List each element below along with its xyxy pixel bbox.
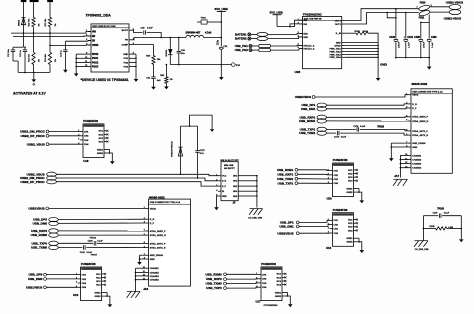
svg-text:PUSB3FR6: PUSB3FR6 bbox=[83, 119, 98, 123]
node USB2_VBUS bus bbox=[27, 172, 57, 176]
svg-text:JA6: JA6 bbox=[143, 287, 148, 291]
svg-text:CPY0USB7626: CPY0USB7626 bbox=[264, 305, 279, 307]
svg-text:C184: C184 bbox=[407, 36, 413, 39]
svg-text:1%: 1% bbox=[170, 79, 173, 81]
svg-text:D_N: D_N bbox=[222, 181, 227, 183]
svg-text:USB_RXM1: USB_RXM1 bbox=[277, 168, 294, 172]
svg-text:R186: R186 bbox=[355, 31, 361, 33]
svg-text:USB_DM1: USB_DM1 bbox=[279, 225, 294, 229]
svg-text:NC4: NC4 bbox=[277, 283, 282, 286]
ESD array U18 title bbox=[83, 119, 98, 123]
wire bbox=[299, 220, 329, 222]
svg-text:VBUS: VBUS bbox=[412, 95, 419, 97]
svg-text:NC2: NC2 bbox=[99, 134, 104, 136]
wire bbox=[405, 13, 407, 39]
svg-text:1: 1 bbox=[216, 174, 217, 176]
svg-text:NC3: NC3 bbox=[348, 177, 353, 179]
wire GND_DRAIN tie JA6 bbox=[139, 255, 146, 262]
wire VIN2 bus bbox=[13, 35, 91, 38]
node USB_DP1 bbox=[301, 103, 326, 107]
svg-text:NC4: NC4 bbox=[348, 229, 353, 232]
svg-text:STDA_SSTX_P: STDA_SSTX_P bbox=[412, 130, 428, 133]
node USB_PG2 bbox=[235, 48, 252, 52]
svg-text:BATEN2: BATEN2 bbox=[235, 37, 247, 41]
wire bbox=[420, 22, 422, 38]
svg-text:D_N: D_N bbox=[412, 104, 417, 106]
wire bbox=[169, 56, 171, 65]
svg-text:USB1VBUS: USB1VBUS bbox=[26, 285, 42, 289]
svg-text:U18: U18 bbox=[83, 159, 89, 163]
svg-text:0.1uF: 0.1uF bbox=[341, 137, 347, 139]
svg-text:STDA_SSRX_P: STDA_SSRX_P bbox=[412, 116, 428, 119]
wire bbox=[327, 107, 409, 110]
capacitor C181 bbox=[80, 245, 93, 254]
svg-text:C180: C180 bbox=[88, 241, 94, 243]
wire bbox=[181, 125, 198, 150]
svg-text:AB RECPT: AB RECPT bbox=[224, 167, 235, 170]
svg-text:NC2: NC2 bbox=[277, 277, 282, 279]
svg-text:CH1: CH1 bbox=[82, 274, 87, 276]
svg-text:46365-0002: 46365-0002 bbox=[149, 195, 165, 199]
capacitor C180 bbox=[88, 241, 104, 246]
svg-text:PWR_VIA4: PWR_VIA4 bbox=[330, 56, 342, 59]
svg-text:0.1uF: 0.1uF bbox=[147, 28, 153, 30]
node USB2_DM_PROC bbox=[20, 130, 49, 134]
svg-text:GND_DRAIN: GND_DRAIN bbox=[412, 142, 425, 145]
svg-text:GND: GND bbox=[380, 63, 388, 67]
wire bbox=[49, 65, 51, 73]
svg-text:1: 1 bbox=[256, 273, 257, 275]
wire bbox=[428, 42, 430, 58]
note CPY0USB7626 bbox=[264, 305, 279, 307]
capacitor C30 bbox=[177, 38, 186, 56]
svg-text:USB CONNECTOR TYPE A 1A: USB CONNECTOR TYPE A 1A bbox=[150, 201, 181, 204]
wire bbox=[58, 218, 145, 220]
svg-text:PUSB3FR6: PUSB3FR6 bbox=[333, 158, 348, 162]
ground bbox=[63, 70, 68, 73]
note CH_GND_USB bbox=[248, 217, 262, 219]
wire bbox=[327, 132, 337, 134]
svg-text:NC2: NC2 bbox=[348, 223, 353, 225]
svg-text:CH4: CH4 bbox=[262, 286, 267, 289]
wire bbox=[190, 115, 213, 129]
svg-text:1.0M: 1.0M bbox=[448, 227, 453, 229]
svg-text:GND_DRAIN: GND_DRAIN bbox=[150, 254, 163, 257]
svg-text:R188: R188 bbox=[430, 226, 436, 228]
wire bbox=[153, 64, 155, 76]
svg-text:TP10: TP10 bbox=[236, 65, 241, 67]
svg-text:4.7uH: 4.7uH bbox=[205, 32, 212, 35]
ESD array U17 body bbox=[256, 267, 287, 301]
svg-text:ACTIVATES AT 3.1V: ACTIVATES AT 3.1V bbox=[13, 92, 46, 96]
wire bbox=[270, 44, 302, 47]
svg-text:1: 1 bbox=[328, 219, 329, 221]
node 3V3_USB power flag bbox=[215, 7, 229, 37]
svg-text:NC2: NC2 bbox=[96, 277, 101, 279]
svg-text:CH1: CH1 bbox=[334, 220, 339, 222]
svg-text:USB1VBUS: USB1VBUS bbox=[28, 206, 44, 210]
svg-text:CH2: CH2 bbox=[84, 136, 89, 138]
wire bbox=[147, 33, 163, 39]
power switch U26 title bbox=[303, 12, 323, 16]
svg-text:GND2: GND2 bbox=[346, 192, 353, 194]
diode D1 bbox=[18, 17, 25, 26]
wire bbox=[442, 215, 461, 217]
wire bbox=[221, 50, 223, 66]
svg-text:STDA_SSRX_P: STDA_SSRX_P bbox=[150, 230, 166, 233]
wire bbox=[423, 215, 438, 217]
wire bbox=[58, 234, 145, 236]
wire bbox=[227, 273, 259, 275]
node BATEN2 bbox=[235, 37, 251, 41]
wire bbox=[56, 182, 218, 186]
svg-text:PH: PH bbox=[125, 40, 128, 42]
wire bbox=[58, 247, 82, 249]
svg-text:PGD3: PGD3 bbox=[92, 66, 99, 68]
svg-text:CH3: CH3 bbox=[82, 283, 87, 285]
resistor R10 bbox=[29, 17, 41, 26]
node 3V3USB terminal bbox=[231, 63, 240, 67]
resistor R32 feedback bbox=[160, 64, 173, 84]
node TP105 bbox=[437, 209, 444, 211]
wire bbox=[298, 178, 330, 180]
svg-text:1%: 1% bbox=[39, 23, 41, 26]
svg-text:BOOT: BOOT bbox=[122, 30, 129, 32]
svg-text:20.0k: 20.0k bbox=[363, 31, 369, 33]
svg-text:C12 1u: C12 1u bbox=[20, 49, 22, 57]
svg-text:1%: 1% bbox=[55, 59, 57, 62]
wire cap ground bus bbox=[395, 57, 430, 67]
ESD array U19 body bbox=[76, 267, 107, 301]
svg-text:PWR_VIA3: PWR_VIA3 bbox=[330, 53, 342, 56]
wire bbox=[290, 24, 303, 27]
svg-text:3: 3 bbox=[256, 282, 257, 284]
node TP108 bbox=[377, 127, 384, 129]
ESD array U16 title bbox=[333, 208, 348, 212]
svg-text:TP16: TP16 bbox=[201, 18, 207, 20]
svg-text:R13 49k: R13 49k bbox=[44, 53, 47, 62]
wire bbox=[178, 53, 180, 65]
svg-text:PG2: PG2 bbox=[124, 62, 129, 64]
node 3V3_USB power flag bbox=[270, 10, 284, 26]
svg-text:0.1uF: 0.1uF bbox=[444, 213, 450, 215]
svg-text:FAULT1_A: FAULT1_A bbox=[304, 44, 315, 47]
svg-text:NC1: NC1 bbox=[277, 274, 282, 276]
test point TP16 bbox=[197, 18, 222, 25]
node USB_DP1 lower bbox=[280, 220, 299, 224]
ESD array U20 body bbox=[328, 163, 359, 197]
svg-text:USB CONNECTOR TYPE A 1A: USB CONNECTOR TYPE A 1A bbox=[412, 91, 443, 94]
svg-text:USB2_DP_PROC: USB2_DP_PROC bbox=[20, 180, 45, 184]
svg-text:USB2VBUS: USB2VBUS bbox=[295, 95, 311, 99]
wire COMP bbox=[132, 45, 154, 56]
svg-text:100uF: 100uF bbox=[423, 41, 425, 48]
svg-text:FB10: FB10 bbox=[420, 3, 426, 5]
wire bbox=[204, 37, 223, 39]
svg-text:VBUS: VBUS bbox=[150, 208, 157, 210]
svg-text:D_N: D_N bbox=[150, 219, 155, 221]
capacitor C14 bbox=[60, 49, 68, 57]
svg-text:CH1: CH1 bbox=[262, 274, 267, 276]
svg-text:PESD5V0S1UB: PESD5V0S1UB bbox=[172, 141, 174, 157]
svg-text:CH3: CH3 bbox=[262, 283, 267, 285]
connector J5 title bbox=[220, 160, 239, 162]
wire bbox=[49, 2, 51, 17]
wire bbox=[405, 42, 407, 58]
capacitor C31 bbox=[146, 77, 161, 82]
wire bbox=[180, 157, 182, 175]
svg-text:GND1: GND1 bbox=[275, 292, 282, 294]
svg-text:1: 1 bbox=[404, 37, 405, 39]
resistor R11 bbox=[44, 17, 57, 26]
node USB_TXP0 bbox=[31, 241, 58, 245]
svg-text:MMSZ: MMSZ bbox=[18, 19, 20, 26]
wire U17 ground hook bbox=[287, 292, 291, 304]
svg-text:2: 2 bbox=[216, 180, 217, 182]
wire bbox=[217, 196, 219, 207]
svg-text:C14 1u: C14 1u bbox=[60, 49, 63, 57]
ESD array U19 refdes bbox=[73, 293, 79, 297]
svg-text:NC2: NC2 bbox=[348, 173, 353, 175]
node USB2VBUS lower bbox=[277, 231, 299, 235]
ferrite bead FB10 bbox=[417, 3, 432, 12]
wire bbox=[220, 65, 222, 78]
ferrite bead FB11 bbox=[418, 9, 430, 19]
wire GND bus U26 bbox=[345, 43, 379, 79]
op-amp U14 TPS54331 title bbox=[86, 14, 112, 18]
node USB2_DP_PROC bbox=[21, 134, 49, 138]
capacitor C178 bbox=[353, 126, 366, 131]
wire bbox=[64, 52, 66, 70]
chassis ground bbox=[127, 292, 140, 298]
svg-text:USB2VBUS: USB2VBUS bbox=[277, 231, 293, 235]
capacitor C184 bbox=[404, 36, 414, 48]
node USB_RXM0 bbox=[31, 233, 59, 237]
svg-text:D_P: D_P bbox=[150, 223, 155, 225]
svg-text:1%: 1% bbox=[39, 59, 41, 62]
wire bbox=[298, 182, 330, 184]
svg-text:0.1uF: 0.1uF bbox=[360, 126, 366, 128]
ground bbox=[376, 78, 381, 81]
svg-text:46365-0002: 46365-0002 bbox=[411, 82, 427, 86]
svg-text:R11 24k: R11 24k bbox=[44, 18, 47, 27]
node USB_DM0 bbox=[33, 221, 59, 225]
svg-text:C178: C178 bbox=[353, 126, 359, 128]
node TP107 bbox=[91, 254, 98, 256]
wire bbox=[327, 128, 356, 130]
svg-text:3: 3 bbox=[216, 185, 217, 187]
ground bbox=[137, 262, 142, 265]
svg-text:3: 3 bbox=[328, 178, 329, 180]
svg-text:PWR_VIA1: PWR_VIA1 bbox=[330, 47, 342, 50]
ground bbox=[427, 67, 432, 70]
wire bbox=[56, 174, 218, 176]
wire stub bbox=[387, 13, 397, 19]
node USB_TXP1 bbox=[300, 127, 327, 131]
svg-text:GND1: GND1 bbox=[346, 238, 353, 240]
ESD array U20 title bbox=[333, 158, 348, 162]
resistor R186 ILIM bbox=[345, 31, 369, 35]
wire bbox=[24, 46, 26, 49]
svg-text:CH1: CH1 bbox=[84, 131, 89, 133]
svg-text:PUSB3FR6: PUSB3FR6 bbox=[261, 262, 276, 266]
node USB_DM1 bbox=[301, 107, 327, 111]
wire bbox=[327, 120, 409, 122]
wire GND_DRAIN tie bbox=[391, 143, 409, 158]
svg-text:CH4: CH4 bbox=[84, 143, 89, 146]
svg-text:10u: 10u bbox=[181, 53, 185, 55]
ground bbox=[459, 239, 464, 242]
svg-text:3: 3 bbox=[328, 227, 329, 229]
svg-text:OUT1: OUT1 bbox=[335, 20, 342, 22]
svg-text:SS: SS bbox=[92, 40, 96, 42]
wire output rail bbox=[170, 64, 231, 66]
svg-text:CH_GND_USB: CH_GND_USB bbox=[248, 217, 262, 219]
inductor L2 bbox=[186, 32, 212, 38]
node USB2_DM_PROC bus bbox=[20, 176, 56, 180]
svg-text:D_P: D_P bbox=[222, 186, 227, 188]
node USB_PG1 bbox=[235, 44, 252, 48]
resistor R13 bbox=[44, 52, 57, 64]
wire U20 ground hook bbox=[358, 189, 362, 201]
wire bbox=[268, 37, 303, 39]
svg-text:EN: EN bbox=[92, 36, 96, 38]
svg-text:USB_RXP0: USB_RXP0 bbox=[206, 277, 222, 281]
power switch U26 refdes bbox=[295, 70, 301, 74]
svg-text:1: 1 bbox=[328, 169, 329, 171]
wire bbox=[58, 222, 145, 224]
svg-text:USB_RXM0: USB_RXM0 bbox=[31, 233, 48, 237]
svg-text:VCC: VCC bbox=[222, 176, 227, 178]
svg-text:CHASE2: CHASE2 bbox=[150, 271, 160, 274]
svg-text:U20: U20 bbox=[327, 197, 333, 201]
wire OUT1 bbox=[345, 8, 419, 21]
ground bbox=[214, 207, 219, 210]
svg-text:D_P: D_P bbox=[412, 108, 417, 110]
wire bbox=[251, 33, 258, 35]
node USB_TXM0 bbox=[206, 282, 227, 286]
node USB2_DP_PROC bus bbox=[20, 180, 56, 184]
wire bbox=[251, 38, 258, 40]
wire U16 ground hook bbox=[358, 238, 362, 250]
ground bbox=[389, 158, 394, 161]
wire bbox=[315, 95, 408, 97]
svg-text:IL_M: IL_M bbox=[336, 33, 341, 35]
svg-text:CH4: CH4 bbox=[334, 232, 339, 235]
capacitor C12 bbox=[20, 49, 27, 57]
wire bbox=[395, 9, 397, 39]
node USB_RXP0 bbox=[31, 229, 58, 233]
svg-text:USB_TXM0: USB_TXM0 bbox=[206, 282, 222, 286]
node USB1-VBUS bbox=[446, 1, 463, 10]
wire bbox=[252, 49, 259, 51]
svg-text:2: 2 bbox=[256, 278, 257, 280]
svg-text:USB_TXP1: USB_TXP1 bbox=[278, 181, 294, 185]
wire bbox=[33, 65, 35, 73]
svg-text:PGD2: PGD2 bbox=[92, 62, 99, 64]
svg-text:CHASE2: CHASE2 bbox=[412, 158, 422, 161]
svg-text:C183: C183 bbox=[389, 37, 395, 39]
svg-text:CH4: CH4 bbox=[82, 286, 87, 289]
svg-text:GND: GND bbox=[150, 259, 155, 261]
capacitor C29 bbox=[141, 28, 154, 35]
svg-text:NC1: NC1 bbox=[348, 170, 353, 172]
node USB1VBUS lower bbox=[26, 285, 46, 289]
wire bbox=[64, 41, 66, 50]
svg-text:3: 3 bbox=[78, 139, 79, 141]
svg-text:USB_DM0: USB_DM0 bbox=[28, 277, 43, 281]
node GND label bbox=[380, 63, 388, 67]
wire bbox=[24, 52, 26, 73]
svg-text:PG3: PG3 bbox=[124, 66, 129, 68]
svg-text:STEP DOWN DC-DC CONV: STEP DOWN DC-DC CONV bbox=[92, 26, 116, 28]
wire bbox=[13, 47, 24, 50]
wire bbox=[49, 143, 80, 145]
wire bbox=[340, 133, 408, 135]
wire bbox=[23, 26, 25, 48]
wire bbox=[197, 153, 199, 179]
svg-text:DPAD: DPAD bbox=[335, 44, 341, 47]
node VIN3 terminal bbox=[47, 0, 53, 2]
wire bbox=[58, 230, 145, 232]
resistor R180 jumper bbox=[257, 32, 268, 36]
node BATEN1 bbox=[235, 32, 251, 36]
svg-text:1%: 1% bbox=[55, 23, 57, 26]
resistor R181 jumper bbox=[257, 37, 268, 41]
svg-text:GND: GND bbox=[412, 147, 417, 149]
svg-text:GND2: GND2 bbox=[346, 242, 353, 244]
ground bbox=[108, 304, 113, 307]
svg-text:CH_GND_USB: CH_GND_USB bbox=[415, 249, 429, 251]
wire bbox=[270, 49, 302, 51]
svg-text:USB_TXM1: USB_TXM1 bbox=[277, 177, 293, 181]
ground bbox=[110, 161, 115, 164]
svg-text:USB_TXM0: USB_TXM0 bbox=[31, 246, 47, 250]
node USB_RXP1 bbox=[277, 172, 297, 176]
connector J5 body bbox=[216, 162, 241, 201]
svg-text:USB1-VBUS: USB1-VBUS bbox=[446, 1, 463, 5]
ground bbox=[134, 79, 139, 82]
svg-text:USB_RXM1: USB_RXM1 bbox=[299, 119, 316, 123]
svg-text:STDA_SSRX_N: STDA_SSRX_N bbox=[412, 120, 428, 123]
svg-text:NC4: NC4 bbox=[99, 140, 104, 143]
svg-text:USB_RXM0: USB_RXM0 bbox=[205, 272, 222, 276]
wire bbox=[153, 79, 155, 87]
svg-text:C185: C185 bbox=[414, 37, 420, 39]
svg-text:COMP: COMP bbox=[121, 45, 128, 47]
svg-text:NC3: NC3 bbox=[277, 281, 282, 283]
wire bbox=[227, 286, 259, 289]
svg-text:OUT2: OUT2 bbox=[335, 24, 342, 26]
node USB_TXP0 bbox=[206, 286, 226, 290]
resistor R182 bbox=[259, 45, 271, 48]
wire bbox=[277, 20, 303, 27]
connector JA7 refdes bbox=[394, 174, 399, 178]
svg-text:GND1: GND1 bbox=[95, 292, 102, 294]
wire bbox=[165, 83, 167, 86]
wire bbox=[227, 282, 259, 285]
svg-text:CH2: CH2 bbox=[262, 279, 267, 281]
svg-text:CH4: CH4 bbox=[334, 182, 339, 185]
svg-text:C181: C181 bbox=[80, 252, 86, 254]
svg-text:NC3: NC3 bbox=[348, 227, 353, 229]
svg-text:FB11: FB11 bbox=[419, 18, 425, 20]
node USB_DP0 lower bbox=[28, 273, 46, 277]
svg-text:STDA_SSTX_P: STDA_SSTX_P bbox=[150, 242, 166, 245]
note DEVICE USED IS TPS54331 bbox=[81, 78, 129, 82]
svg-text:4.7u: 4.7u bbox=[200, 152, 205, 155]
svg-text:CH1: CH1 bbox=[334, 170, 339, 172]
